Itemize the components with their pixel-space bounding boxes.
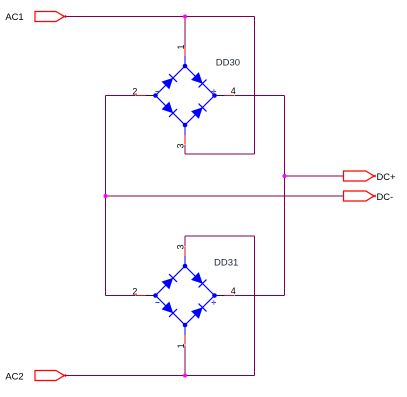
diode DD31 N-E: [192, 273, 207, 288]
junction DC- tap: [104, 194, 108, 198]
DD30 plus mark (pin 4): [212, 89, 217, 93]
svg-text:DC-: DC-: [377, 191, 394, 202]
DD31 corner node top: [183, 264, 188, 269]
port AC1 symbol: [35, 12, 64, 22]
DD31 pin 1 lead (bottom): [184, 325, 186, 345]
wire AC2 to DD31 pin1: [184, 346, 186, 376]
svg-text:1: 1: [176, 343, 186, 348]
DD31 corner node right: [212, 293, 217, 298]
wire AC1 right vertical: [254, 17, 256, 155]
svg-text:AC2: AC2: [5, 370, 23, 381]
DD31 corner node left: [153, 293, 158, 298]
wire AC1 to DD30 pin1: [184, 17, 186, 47]
svg-text:1: 1: [176, 44, 186, 49]
wire AC1 to DD30 pin3: [184, 145, 186, 154]
DD30 corner node top: [183, 64, 188, 69]
port AC2 symbol: [35, 371, 64, 381]
wire AC1 horizontal top: [64, 16, 255, 18]
diode DD31 S-E: [192, 304, 207, 319]
DD30 corner node left: [153, 93, 158, 98]
DD31 pin 2 lead (left): [136, 295, 156, 297]
wire left rail to DD31 pin2: [106, 295, 136, 297]
DD30 pin 4 lead (right): [215, 95, 235, 97]
DD30 pin 1 lead (top): [184, 47, 186, 67]
bridge rectifier DD31: diamond outline: [156, 266, 215, 325]
DD30 minus mark (pin 2): [156, 91, 160, 93]
wire AC2 top of loop: [185, 235, 255, 237]
junction AC1 / DD30 pin1: [183, 15, 187, 19]
port DC+ symbol: [344, 171, 375, 181]
diode DD31 W-S: [162, 302, 177, 317]
diode DD30 W-N: [162, 74, 177, 89]
DD31 minus mark (pin 2): [156, 302, 160, 304]
wire right rail to DD31 pin4: [235, 295, 285, 297]
diode DD30 W-S: [162, 102, 177, 117]
svg-text:3: 3: [176, 143, 186, 148]
port DC- symbol: [344, 191, 375, 201]
diode DD30 N-E: [192, 73, 207, 88]
svg-text:4: 4: [231, 86, 236, 96]
wire AC2 horizontal bottom: [64, 375, 255, 377]
wire DC+ right vertical rail: [284, 96, 286, 296]
DD31 corner node bottom: [183, 323, 188, 328]
svg-text:2: 2: [132, 286, 137, 296]
wire DD30 pin2 to left rail: [106, 95, 136, 97]
DD31 pin 4 lead (right): [215, 295, 235, 297]
diode DD31 W-N: [162, 274, 177, 289]
svg-text:DC+: DC+: [377, 171, 397, 182]
wire DC- horizontal to port: [106, 195, 344, 197]
DD31 plus mark (pin 4): [212, 300, 217, 304]
svg-text:AC1: AC1: [5, 11, 23, 22]
diode DD30 S-E: [192, 104, 207, 119]
wire AC2 to DD31 pin3: [184, 236, 186, 246]
svg-text:DD30: DD30: [216, 58, 240, 69]
bridge rectifier DD30: diamond outline: [156, 66, 215, 125]
svg-text:DD31: DD31: [214, 258, 238, 269]
DD30 corner node right: [212, 93, 217, 98]
wire DC- left vertical rail: [105, 96, 107, 296]
DD31 pin 3 lead (top): [184, 247, 186, 267]
wire AC1 bottom of loop: [185, 153, 255, 155]
wire AC2 right vertical: [254, 236, 256, 376]
junction AC2 / DD31 pin1: [183, 374, 187, 378]
wire DD30 pin4 to right rail: [235, 95, 285, 97]
svg-text:4: 4: [231, 286, 236, 296]
svg-text:3: 3: [176, 244, 186, 249]
junction DC+ tap: [283, 174, 287, 178]
DD30 corner node bottom: [183, 123, 188, 128]
wire DC+ horizontal to port: [285, 175, 344, 177]
svg-text:2: 2: [132, 86, 137, 96]
DD30 pin 3 lead (bottom): [184, 125, 186, 145]
DD30 pin 2 lead (left): [136, 95, 156, 97]
